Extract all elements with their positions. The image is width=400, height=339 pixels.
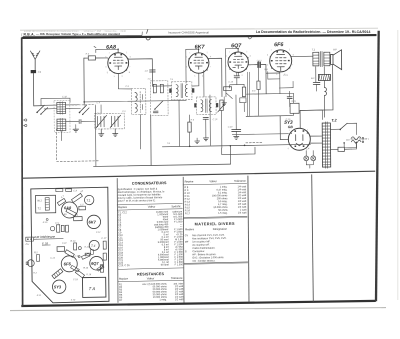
svg-text:6K7: 6K7 [88, 219, 96, 224]
svg-text:C.V: C.V [55, 223, 59, 225]
coil L2 (antenna secondary, wound) [54, 101, 70, 133]
svg-text:6F6: 6F6 [64, 261, 72, 266]
svg-text:Tolérance: Tolérance [171, 276, 183, 280]
wire B+ rail C [246, 115, 293, 118]
frame border left [21, 38, 24, 307]
svg-text:5.Y3: 5.Y3 [71, 300, 76, 302]
tube U1 6A8 label [106, 45, 116, 51]
svg-text:C.15: C.15 [228, 82, 233, 84]
tie points (layout) [46, 218, 93, 258]
table CONDENSATEURS title [132, 181, 167, 185]
tube U4 6F6 envelope [267, 50, 295, 72]
wire U2 screen feeder [204, 70, 211, 145]
svg-text:C.14: C.14 [50, 257, 55, 260]
switch S2 (mains) [330, 123, 356, 135]
svg-text:1: 1 [271, 49, 272, 51]
gang condenser CV (layout) [50, 223, 68, 233]
svg-text:pour F et M, et de service pou: pour F et M, et de service pour E. [118, 198, 156, 203]
wire U3 cathode down [237, 72, 239, 75]
wire heater step [222, 147, 255, 154]
mechanical link (dashed, tuning gang) [56, 129, 99, 162]
svg-text:T.8: T.8 [167, 143, 171, 145]
title right (publication) [256, 30, 371, 34]
wire coil to CV gang [92, 120, 95, 122]
svg-text:6: 6 [186, 66, 187, 68]
svg-text:C.12: C.12 [96, 232, 101, 234]
svg-text:1/4 watt1/4 watt1/4 watt1/2 wa: 1/4 watt1/4 watt1/4 watt1/2 watt1/2 watt… [237, 185, 246, 214]
IF can T1 (layout) [84, 195, 94, 205]
coil L3 (oscillator grid coils) [131, 88, 146, 114]
wire U3 top cap [226, 48, 238, 96]
svg-text:R.11: R.11 [37, 295, 42, 297]
wire IFT1 input [152, 85, 171, 87]
horizontal rule (schematic / tables) [23, 171, 375, 178]
tube U3 6Q7 envelope [225, 48, 251, 73]
svg-text:R.14: R.14 [83, 267, 89, 270]
wire volume feeder [94, 105, 96, 166]
svg-text:Repère: Repère [118, 205, 127, 209]
svg-text:1 még.0,47 még.0,1 még.100.000: 1 még.0,47 még.0,1 még.100.000 ohms250 o… [212, 186, 229, 215]
svg-text:R.9: R.9 [252, 91, 256, 93]
wire U2 top cap [186, 49, 199, 83]
svg-text:T.3: T.3 [147, 79, 151, 81]
table CONDENSATEURS spec paragraph [118, 186, 166, 202]
power transformer T.A (layout) [82, 277, 105, 297]
svg-text:R.2: R.2 [34, 252, 38, 254]
resistor R5 (diode load, vertical) [240, 84, 246, 111]
svg-text:5: 5 [194, 76, 195, 78]
svg-text:R 8R 9R 10R 11R 12R 13R 14R 15: R 8R 9R 10R 11R 12R 13R 14R 15R 16R 17 [184, 186, 190, 215]
svg-text:T.4: T.4 [91, 244, 96, 248]
field coil EXC (hatched block) [311, 74, 331, 80]
svg-text:6: 6 [106, 67, 107, 69]
svg-text:Désignation: Désignation [213, 227, 228, 231]
table RESISTANCES right half header [183, 179, 247, 185]
svg-text:C.21: C.21 [283, 75, 288, 77]
padder C.2 (right of 6A8) [79, 204, 86, 209]
svg-text:7: 7 [210, 66, 211, 68]
svg-text:1: 1 [189, 52, 190, 54]
HEADER [21, 29, 370, 40]
wire detector node [230, 83, 244, 85]
page scan edge bottom [10, 308, 386, 311]
wire osc box to rail [150, 115, 152, 165]
svg-text:2: 2 [126, 52, 127, 54]
mains transformer W1/T2 (layout) [36, 195, 56, 213]
condenser block (right edge) [100, 241, 107, 272]
svg-text:5: 5 [114, 76, 115, 78]
svg-text:C.10: C.10 [213, 119, 218, 121]
wire mid rail B [162, 144, 310, 146]
legend: vue interieure [34, 235, 64, 240]
wire speaker return [300, 65, 333, 128]
svg-text:HP: HP [333, 48, 337, 52]
ground (antenna coil) [73, 125, 79, 132]
svg-text:Valeur: Valeur [148, 205, 156, 209]
socket 6K7 (layout) [87, 215, 101, 229]
wire AVC line [84, 100, 186, 102]
svg-text:2x490 mmf1.000mmf50mf49mf5.000: 2x490 mmf1.000mmf50mf49mf5.000 mmfpad.lo… [154, 211, 170, 267]
svg-text:W.1: W.1 [37, 199, 42, 202]
tube U5 5Y3 envelope [288, 128, 310, 150]
trimmer bar C.7 (upper-left of 6A8) [56, 195, 68, 206]
svg-text:T.5: T.5 [170, 79, 174, 81]
svg-text:6Q7: 6Q7 [91, 261, 99, 266]
svg-text:CVMFS: CVMFS [185, 234, 189, 253]
svg-text:8: 8 [122, 76, 123, 78]
svg-text:1: 1 [289, 130, 290, 132]
title centre (chassis note) [168, 30, 209, 34]
svg-text:R.B.A.: R.B.A. [24, 32, 35, 36]
dial cord bar A3 (upper-right of 6A8) [70, 189, 86, 202]
svg-text:T A: T A [89, 286, 96, 291]
svg-text:1: 1 [229, 51, 230, 53]
svg-text:4: 4 [249, 56, 251, 58]
ghost text (scan bleed) [24, 29, 127, 33]
node junction (AVC tap) [83, 101, 85, 103]
wire U1 g2 down [118, 73, 131, 89]
svg-text:T.2: T.2 [331, 119, 337, 123]
pilot lamp LP2 [306, 150, 316, 168]
resistor R1 (grid stopper U1) [84, 56, 108, 60]
svg-text:8: 8 [242, 75, 243, 77]
svg-text:R.18: R.18 [86, 274, 91, 276]
svg-text:Repère: Repère [185, 227, 194, 231]
svg-text:2: 2 [289, 49, 290, 51]
svg-text:7: 7 [129, 66, 130, 68]
socket bar (6Q7 key) [97, 265, 104, 271]
variable capacitor CV2 [95, 113, 125, 129]
svg-text:C.1B: C.1B [73, 279, 78, 281]
page scan edge right [397, 30, 399, 300]
power transformer T2 [322, 119, 338, 169]
frame border top [22, 35, 377, 38]
socket 6Q7 (layout) [83, 256, 103, 270]
IF transformer IFT1 [169, 82, 194, 100]
wire U4 plate to T1 [292, 55, 313, 57]
wire L3 to rail [139, 114, 141, 148]
wire L2 return [60, 131, 62, 140]
svg-text:C7: C7 [145, 70, 149, 73]
terminal strip C.A. [56, 188, 78, 192]
svg-text:5Y3: 5Y3 [54, 284, 62, 289]
wire pot return [221, 111, 223, 148]
svg-text:7: 7 [249, 65, 250, 67]
socket 6F6 (layout) [61, 256, 80, 272]
svg-text:C.17: C.17 [101, 238, 107, 240]
table RESISTANCES right half rows [184, 185, 246, 215]
wire shielded pair [247, 72, 249, 116]
svg-text:CV1: CV1 [97, 112, 102, 115]
electrolytic C.18 (layout, tilted) [52, 269, 63, 279]
svg-text:C.20: C.20 [228, 127, 233, 129]
loudspeaker HP [330, 47, 342, 69]
wire U1 top-cap hook [94, 46, 118, 52]
svg-text:2: 2 [207, 52, 208, 54]
column rule 2 [182, 177, 185, 303]
potentiometer (left edge, layout) [26, 252, 40, 266]
mains cord (secteur) [343, 137, 370, 150]
wire bottom rail [94, 164, 231, 166]
svg-text:8: 8 [202, 76, 203, 78]
wire grid feeder [83, 58, 85, 105]
svg-text:R.6: R.6 [191, 119, 195, 121]
svg-text:Secteur 110-245 v: Secteur 110-245 v [350, 138, 369, 141]
wire IFT1 return [178, 100, 180, 146]
svg-text:C.32: C.32 [62, 96, 68, 98]
svg-text:5: 5 [276, 74, 277, 76]
svg-text:R.3: R.3 [86, 53, 90, 55]
svg-text:6K7: 6K7 [195, 44, 206, 50]
tube U5 5Y3 label [284, 120, 293, 129]
IF transformer IFT2 [194, 97, 218, 115]
resistor bar (center) [81, 253, 90, 259]
capacitor C18 (filter) [313, 82, 320, 91]
svg-text:MATERIEL DIVERS: MATERIEL DIVERS [195, 222, 235, 227]
capacitor C13 (coupling) [248, 60, 280, 94]
svg-text:Tolérance: Tolérance [234, 179, 246, 183]
wire antenna lead down [32, 73, 34, 106]
capacitor C1 (antenna series, black block) [31, 70, 42, 74]
table CONDENSATEURS rows spécification column [172, 210, 183, 266]
svg-text:8: 8 [129, 72, 131, 74]
svg-text:C.V: C.V [122, 111, 126, 113]
svg-text:5: 5 [107, 72, 109, 74]
table MATERIEL DIVERS bottom rule [184, 262, 248, 264]
wire dashed to CV [72, 104, 95, 106]
socket bar (6F6 key) [71, 265, 80, 272]
IF can T4 (layout) [89, 238, 107, 250]
antenna [30, 51, 40, 70]
svg-text:Incorporé CHASSIS Argenteuil: Incorporé CHASSIS Argenteuil [168, 30, 209, 34]
svg-text:env. (2) 100.000 ohms50.000 oh: env. (2) 100.000 ohms50.000 ohms20.000 o… [142, 283, 167, 302]
TABLE DIVIDERS [117, 174, 313, 302]
svg-text:4: 4 [129, 57, 131, 59]
node junctions rail B [189, 145, 246, 148]
header underline left [23, 32, 142, 37]
svg-text:3: 3 [267, 55, 269, 57]
coil L1 (antenna primary, wound) [57, 102, 66, 115]
svg-text:C.13: C.13 [257, 60, 262, 62]
ground (U3 grid return) [222, 97, 227, 106]
table CONDENSATEURS rows repère column [118, 211, 130, 267]
wire U2 plate [209, 58, 222, 96]
tube U3 6Q7 label [231, 43, 242, 49]
SEPARATOR under schematic [23, 171, 375, 178]
table CONDENSATEURS rows valeur column [154, 211, 170, 267]
resistor R7 (on AF line) [257, 61, 261, 116]
wire to input coils [34, 105, 44, 107]
wire U5 anodes to T2 [300, 110, 322, 143]
svg-text:Repère: Repère [119, 277, 128, 281]
svg-text:Valeur: Valeur [147, 276, 155, 280]
table MATERIEL DIVERS header [185, 227, 227, 232]
svg-text:C1: C1 [38, 70, 42, 74]
capacitor C7 (padder on plate lead) [145, 70, 155, 73]
column rule 3 [248, 176, 249, 303]
svg-text:6: 6 [267, 64, 268, 66]
svg-text:1: 1 [109, 52, 110, 54]
wire CV1 stator up [100, 105, 102, 113]
capacitor C.14 (layout) [65, 250, 74, 258]
svg-text:R.20: R.20 [85, 247, 90, 249]
tube U2 6K7 envelope [186, 49, 213, 74]
ground (mid rail) [195, 138, 200, 144]
value labels (misc) [86, 52, 310, 153]
output transformer T1 [312, 47, 330, 66]
svg-text:Valeur: Valeur [209, 179, 217, 183]
svg-text:R.16: R.16 [43, 222, 48, 224]
tube U4 6F6 label [274, 42, 284, 48]
svg-text:R.2: R.2 [33, 272, 37, 274]
resistor R.10 (layout) [70, 241, 81, 250]
capacitor C.19 (layout, tilted) [75, 270, 84, 278]
ground (detector) [203, 138, 208, 141]
svg-text:Repère: Repère [185, 179, 194, 183]
svg-text:La Documentation du Radioélect: La Documentation du Radioélectricien. — … [256, 30, 371, 34]
variable capacitor CV1 [96, 112, 107, 127]
svg-text:pot. inter1/2 watt1/2 watt1/2: pot. inter1/2 watt1/2 watt1/2 watt1/2 wa… [174, 282, 184, 301]
ground (CV2) [113, 129, 118, 136]
socket 6A8 (layout) [61, 202, 77, 218]
wire U1 plate to IFT1 [129, 59, 153, 87]
svg-text:C.22: C.22 [62, 243, 67, 245]
terminal terre [23, 119, 27, 127]
wire coil top feed [41, 96, 70, 105]
svg-text:exc: exc [311, 77, 316, 80]
title left (model reference) [21, 32, 120, 36]
fold mark left [146, 29, 151, 40]
svg-text:R.21: R.21 [292, 101, 297, 103]
terminals P.U. [25, 237, 33, 246]
pilot lamp LP1 [304, 151, 309, 161]
column rule 1 [116, 178, 119, 303]
svg-text:6A8: 6A8 [106, 45, 116, 51]
svg-text:GB: GB [288, 125, 294, 129]
capacitor C20 (filter, with ground) [227, 95, 240, 140]
capacitor C15 (cathode bypass) [287, 91, 292, 106]
wire AF bus [246, 93, 293, 116]
capacitor C11 (U3 cathode) [234, 72, 239, 84]
table RESISTANCES rows (left half) [119, 282, 184, 302]
misc part labels (layout) [33, 221, 103, 302]
fuse F1 [331, 147, 352, 151]
svg-text:T.2: T.2 [37, 207, 41, 210]
resistor R4 (horizontal) [223, 85, 232, 99]
frame border right [376, 31, 379, 301]
svg-text:R1R2R3R4R5R6R7: R1R2R3R4R5R6R7 [119, 283, 123, 302]
svg-text:C.A: C.A [73, 189, 77, 192]
switch S1a (antenna selector) [36, 105, 56, 115]
table RESISTANCES header [118, 276, 184, 282]
wire rectifier cathode feed [280, 116, 288, 140]
capacitor C3 (coil tap) [66, 119, 92, 123]
svg-text:T.1: T.1 [86, 199, 91, 203]
svg-text:Extrait de la Documentation: Extrait de la Documentation du Radioelec… [24, 29, 127, 33]
choke L5 [324, 88, 326, 96]
table MATERIEL DIVERS rows [185, 234, 227, 263]
svg-text:RESISTANCES: RESISTANCES [137, 272, 165, 276]
svg-text:C.9: C.9 [125, 86, 129, 88]
potentiometer R2 (volume) [218, 100, 225, 112]
table MATERIEL DIVERS title [183, 216, 247, 226]
fold mark right [248, 36, 253, 39]
table RESISTANCES title [118, 268, 184, 277]
svg-text:6: 6 [288, 148, 289, 150]
resistor board E.1B [42, 241, 65, 252]
svg-text:E.1B: E.1B [42, 241, 48, 245]
wire heater CT line [232, 133, 288, 136]
pin number specks [105, 49, 309, 152]
svg-text:T.1: T.1 [312, 47, 316, 51]
socket 5Y3 (layout) [52, 280, 66, 294]
page scan edge top [20, 28, 378, 30]
svg-text:4: 4 [292, 54, 294, 56]
coil L4 (oscillator anode / padder box) [150, 81, 168, 116]
chassis outline (vue de dessous) [31, 187, 110, 303]
svg-text:P.U: P.U [26, 244, 30, 246]
svg-text:6F6: 6F6 [274, 42, 284, 48]
resistor R6 (cathode bias U4) [268, 71, 299, 113]
resistor R3 [188, 115, 192, 146]
tube U2 6K7 label [195, 44, 206, 50]
switch S1b [66, 105, 89, 116]
wire field to B+ [316, 67, 325, 118]
svg-text:cadmiumM 1.500M 1.500F 1.500F: cadmiumM 1.500M 1.500F 1.500F 1.500——F 1… [172, 210, 183, 266]
column rule 4 [312, 174, 314, 301]
svg-text:2: 2 [246, 51, 247, 53]
frame border bottom [21, 301, 376, 306]
svg-text:L.P: L.P [306, 149, 310, 151]
svg-text:R.8: R.8 [264, 69, 268, 71]
table CONDENSATEURS header [117, 203, 183, 210]
capacitor C10 [203, 117, 208, 137]
trimmer C.1 [74, 215, 83, 221]
wire rail riser [229, 146, 231, 164]
svg-text:CONDENSATEURS: CONDENSATEURS [132, 181, 167, 185]
svg-text:vue intérieure: vue intérieure [34, 235, 55, 239]
svg-text:C1, C12C2C3C4C5C6C7C8C9C10C11C: C1, C12C2C3C4C5C6C7C8C9C10C11C13C14C15C1… [118, 211, 130, 267]
svg-text:R.10: R.10 [70, 241, 76, 243]
svg-text:A9: A9 [63, 213, 68, 216]
svg-text:Spécific.: Spécific. [171, 204, 181, 208]
svg-text:A3: A3 [79, 189, 84, 194]
svg-text:7: 7 [292, 64, 293, 66]
svg-text:Nos d'accord CV1, CV2, CV3.Nos: Nos d'accord CV1, CV2, CV3.Nos oscillate… [192, 234, 227, 263]
ground (CV1) [99, 129, 104, 136]
tube U1 6A8 envelope [105, 48, 132, 74]
wire dashes (heater line) [246, 142, 263, 144]
svg-text:C.7: C.7 [61, 195, 66, 199]
svg-text:6A8: 6A8 [64, 205, 72, 210]
wire IFT1 output to U2 grid [192, 73, 199, 86]
